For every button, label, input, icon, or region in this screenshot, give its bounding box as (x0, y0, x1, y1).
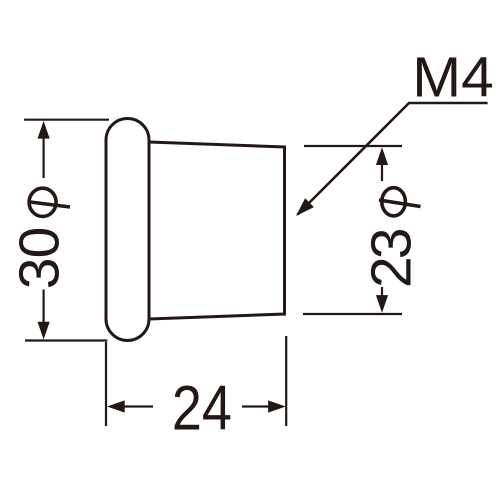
extension line bottom for 30-phi (25, 339, 107, 341)
extension line top for 30-phi (24, 119, 109, 121)
label phi of 30-phi : ellipse (29, 188, 56, 216)
extension line right for 24 (285, 336, 287, 426)
arrowhead up 30-phi (38, 121, 50, 139)
svg-text:24: 24 (172, 374, 232, 444)
arrowhead down 23-phi (376, 295, 388, 313)
dimension line 23-phi upper segment (381, 157, 383, 181)
arrowhead down 30-phi (38, 322, 50, 340)
arrowhead up 23-phi (376, 147, 388, 165)
extension line top for 23-phi (304, 145, 402, 147)
dimension line 30-phi upper segment (42, 130, 44, 178)
svg-text:23: 23 (360, 229, 424, 288)
label phi of 23-phi : ellipse (382, 188, 406, 216)
extension line left for 24 (105, 342, 107, 426)
label phi of 30-phi : stroke (30, 202, 70, 207)
svg-text:M4: M4 (412, 46, 494, 109)
extension line bottom for 23-phi (303, 313, 402, 315)
dimension line 24 left segment (115, 405, 153, 407)
arrowhead left 24 (107, 400, 125, 412)
dimension line 30-phi lower segment (42, 290, 44, 331)
dimension line 24 right segment (242, 405, 278, 407)
dimension line 23-phi lower segment (381, 287, 383, 304)
label phi of 23-phi : stroke (379, 200, 421, 207)
arrowhead right 24 (268, 400, 286, 412)
leader line M4 (298, 103, 488, 215)
knob flange capsule (106, 119, 149, 341)
arrowhead leader M4 (296, 198, 314, 216)
knob body cone (149, 142, 285, 319)
svg-text:30: 30 (8, 227, 72, 289)
